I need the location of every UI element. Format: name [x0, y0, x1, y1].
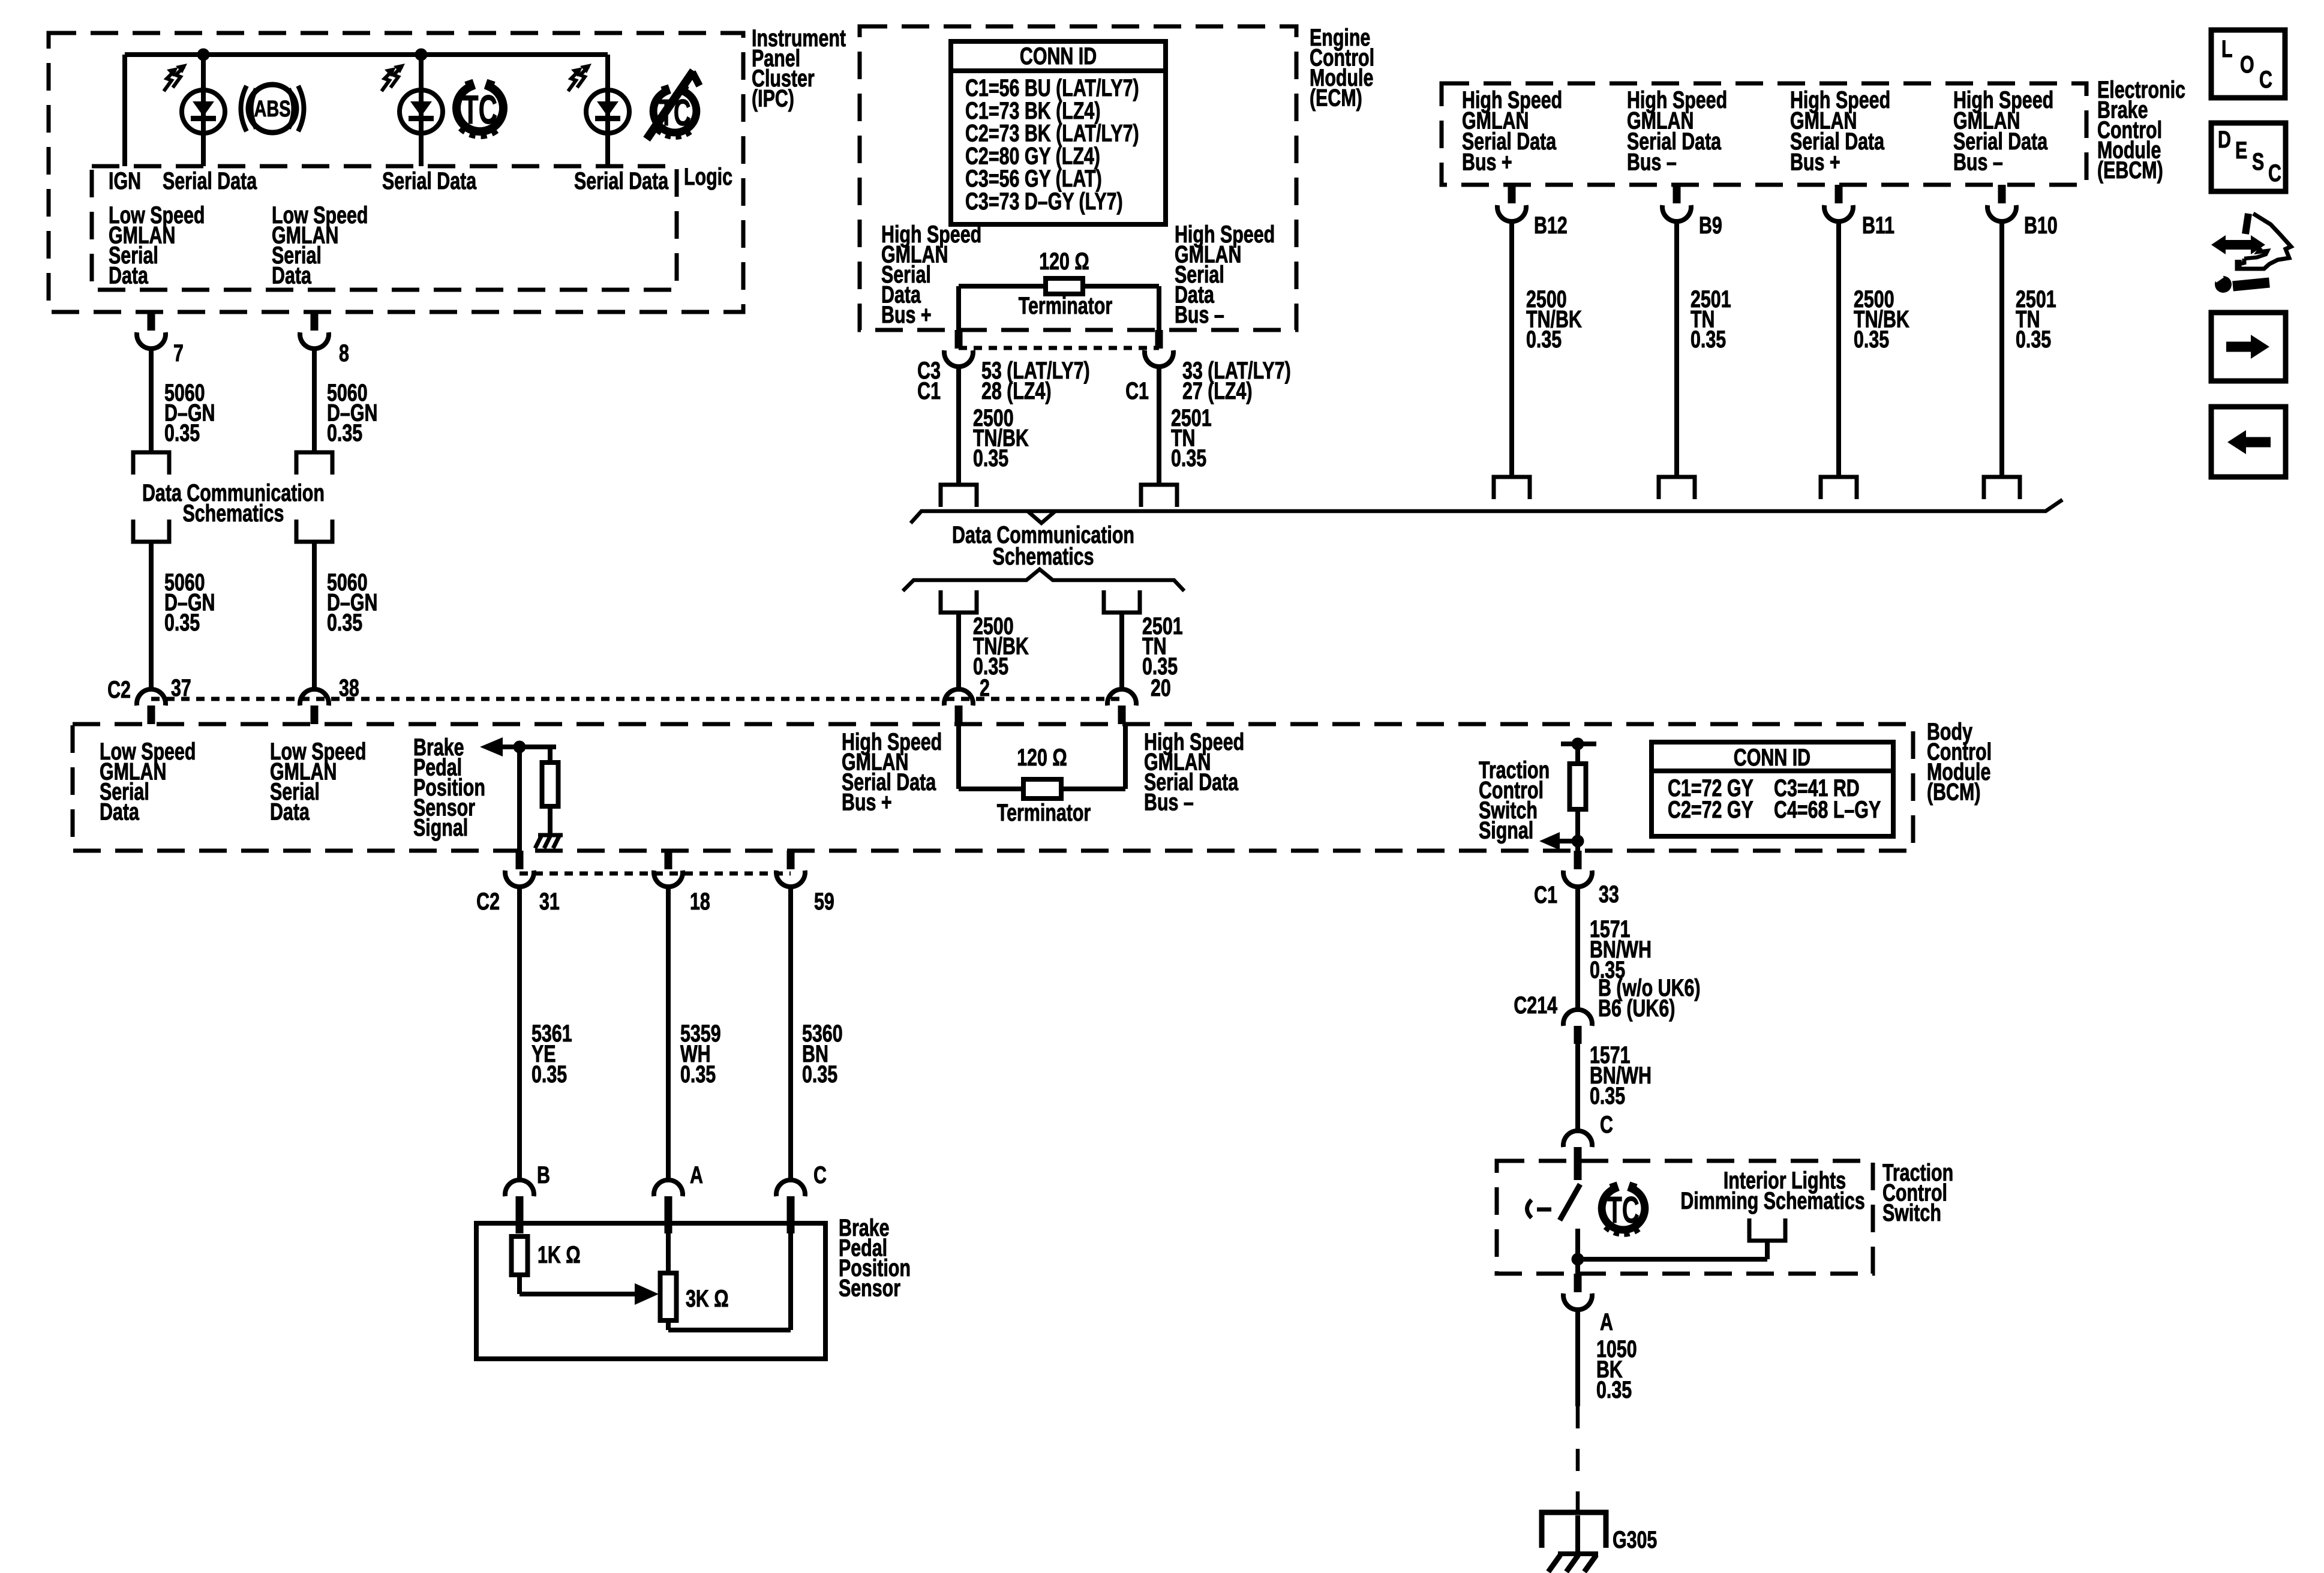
svg-text:B12: B12: [1534, 212, 1568, 239]
svg-text:Schematics: Schematics: [993, 543, 1094, 570]
svg-text:O: O: [2240, 51, 2254, 78]
svg-text:C: C: [1600, 1111, 1613, 1138]
svg-text:B: B: [537, 1161, 550, 1188]
svg-text:Dimming Schematics: Dimming Schematics: [1680, 1187, 1864, 1214]
svg-text:C: C: [2268, 160, 2281, 187]
svg-text:IGN: IGN: [109, 167, 141, 194]
svg-text:0.35: 0.35: [2016, 326, 2051, 353]
svg-text:0.35: 0.35: [327, 419, 362, 446]
svg-text:0.35: 0.35: [164, 419, 200, 446]
svg-text:(IPC): (IPC): [752, 85, 794, 112]
svg-text:L: L: [2221, 35, 2233, 62]
svg-text:C3=73 D–GY (LY7): C3=73 D–GY (LY7): [965, 188, 1123, 215]
svg-text:0.35: 0.35: [532, 1061, 567, 1088]
svg-text:18: 18: [690, 888, 710, 915]
svg-text:0.35: 0.35: [1596, 1376, 1632, 1403]
svg-text:0.35: 0.35: [1691, 326, 1726, 353]
svg-text:Sensor: Sensor: [839, 1274, 900, 1301]
svg-text:27 (LZ4): 27 (LZ4): [1182, 377, 1253, 404]
svg-text:C: C: [2259, 66, 2272, 93]
svg-text:8: 8: [339, 340, 349, 367]
svg-text:(ECM): (ECM): [1310, 84, 1362, 111]
svg-text:CONN ID: CONN ID: [1020, 43, 1097, 70]
svg-text:B11: B11: [1862, 212, 1894, 239]
svg-text:C2=72 GY: C2=72 GY: [1668, 796, 1753, 823]
svg-text:0.35: 0.35: [802, 1061, 837, 1088]
svg-text:CONN ID: CONN ID: [1734, 744, 1810, 771]
svg-text:TC: TC: [463, 87, 497, 133]
svg-text:C4=68 L–GY: C4=68 L–GY: [1774, 796, 1881, 823]
svg-text:20: 20: [1151, 674, 1171, 701]
svg-text:Bus –: Bus –: [1953, 148, 2003, 175]
svg-text:(BCM): (BCM): [1927, 778, 1980, 805]
svg-text:Bus +: Bus +: [1790, 148, 1840, 175]
svg-text:C1: C1: [1534, 881, 1557, 908]
svg-text:0.35: 0.35: [1526, 326, 1562, 353]
svg-text:C1: C1: [1125, 377, 1149, 404]
svg-text:Bus +: Bus +: [842, 788, 892, 815]
svg-text:Bus +: Bus +: [881, 301, 932, 328]
svg-text:Data: Data: [109, 262, 148, 289]
svg-text:C1: C1: [917, 377, 941, 404]
svg-text:0.35: 0.35: [973, 445, 1008, 472]
svg-text:7: 7: [173, 340, 184, 367]
svg-text:A: A: [1600, 1308, 1613, 1335]
svg-text:E: E: [2235, 137, 2247, 164]
svg-text:B10: B10: [2024, 212, 2058, 239]
svg-text:0.35: 0.35: [164, 609, 200, 636]
svg-text:Serial Data: Serial Data: [163, 167, 257, 194]
svg-text:Bus –: Bus –: [1175, 301, 1224, 328]
svg-text:C214: C214: [1514, 992, 1557, 1019]
svg-text:28 (LZ4): 28 (LZ4): [981, 377, 1052, 404]
svg-text:0.35: 0.35: [973, 653, 1008, 680]
svg-text:1K Ω: 1K Ω: [538, 1241, 581, 1268]
svg-text:Signal: Signal: [1479, 816, 1533, 843]
svg-text:Signal: Signal: [413, 814, 468, 841]
svg-text:Bus –: Bus –: [1627, 148, 1677, 175]
svg-text:ABS: ABS: [254, 96, 291, 122]
svg-text:Terminator: Terminator: [997, 799, 1091, 826]
svg-text:Logic: Logic: [684, 163, 732, 190]
svg-text:0.35: 0.35: [680, 1061, 716, 1088]
svg-text:S: S: [2252, 148, 2264, 175]
svg-text:Data: Data: [272, 262, 311, 289]
svg-text:3K Ω: 3K Ω: [686, 1285, 729, 1312]
svg-text:D: D: [2218, 126, 2231, 153]
svg-text:120 Ω: 120 Ω: [1017, 744, 1067, 771]
svg-text:TC: TC: [1607, 1189, 1639, 1231]
svg-text:120 Ω: 120 Ω: [1039, 248, 1089, 275]
svg-text:2: 2: [980, 674, 990, 701]
svg-text:Bus –: Bus –: [1144, 788, 1194, 815]
svg-text:G305: G305: [1613, 1526, 1657, 1553]
svg-text:B6 (UK6): B6 (UK6): [1598, 995, 1675, 1022]
svg-text:Terminator: Terminator: [1019, 292, 1113, 319]
svg-text:Data: Data: [270, 798, 310, 825]
svg-text:Serial Data: Serial Data: [574, 167, 668, 194]
svg-text:0.35: 0.35: [1590, 1082, 1625, 1109]
svg-text:C: C: [813, 1161, 827, 1188]
svg-text:A: A: [690, 1161, 703, 1188]
svg-text:(EBCM): (EBCM): [2097, 157, 2163, 184]
svg-text:Schematics: Schematics: [182, 500, 284, 527]
svg-text:0.35: 0.35: [327, 609, 362, 636]
svg-text:0.35: 0.35: [1854, 326, 1889, 353]
svg-text:Bus +: Bus +: [1462, 148, 1512, 175]
svg-text:31: 31: [539, 888, 560, 915]
svg-text:0.35: 0.35: [1171, 445, 1206, 472]
svg-text:Switch: Switch: [1882, 1199, 1941, 1226]
svg-text:33: 33: [1599, 881, 1619, 908]
svg-text:C2: C2: [476, 888, 500, 915]
svg-text:C2: C2: [107, 676, 131, 703]
svg-text:Serial Data: Serial Data: [382, 167, 476, 194]
svg-text:Data: Data: [100, 798, 139, 825]
svg-text:B9: B9: [1699, 212, 1722, 239]
svg-text:59: 59: [814, 888, 834, 915]
